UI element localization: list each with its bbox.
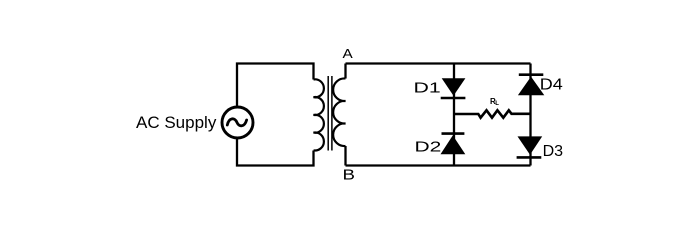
svg-text:B: B xyxy=(343,167,356,184)
svg-text:A: A xyxy=(343,46,354,61)
svg-text:AC Supply: AC Supply xyxy=(136,113,217,132)
svg-text:D4: D4 xyxy=(540,77,563,94)
svg-text:D3: D3 xyxy=(543,143,564,160)
svg-text:D1: D1 xyxy=(414,80,441,97)
svg-text:D2: D2 xyxy=(415,138,442,155)
svg-text:L: L xyxy=(495,101,499,107)
